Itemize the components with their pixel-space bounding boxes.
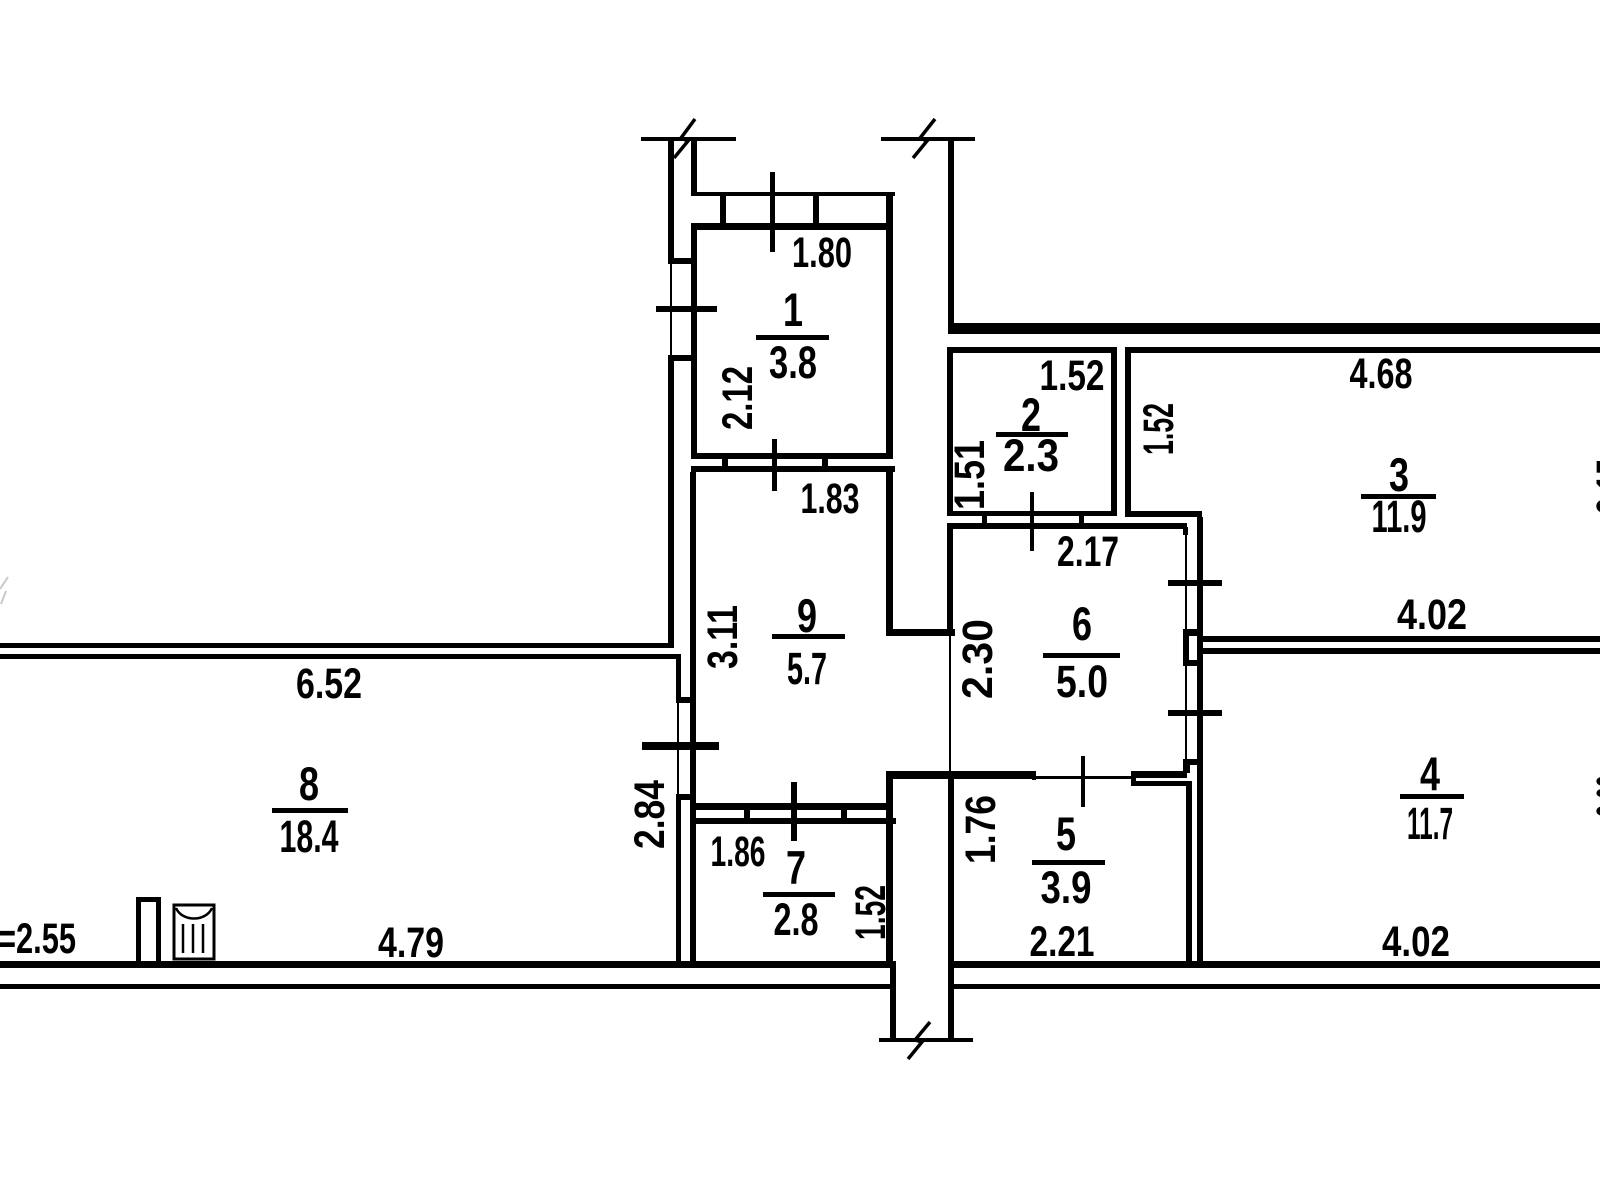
- wall: corridor right leg: [948, 961, 954, 1038]
- room 3 label: fraction line: [1361, 494, 1436, 499]
- svg-text:=2.55: =2.55: [0, 915, 76, 963]
- wall: rooms 6-5 divider left segment: [886, 771, 1034, 779]
- wall: bottom exterior left segment: [0, 961, 896, 968]
- svg-text:5: 5: [1056, 807, 1076, 860]
- svg-text:1.51: 1.51: [946, 440, 994, 510]
- dimension tick: rooms 2-6 (x1032): [1030, 492, 1034, 551]
- svg-text:1.83: 1.83: [801, 475, 860, 523]
- wall: top-right break line: [881, 137, 975, 141]
- wall: bottom exterior right segment: [948, 961, 1600, 968]
- wall: block at room 6 top-right: [1183, 527, 1188, 535]
- wall: exterior left vertical upper (x671): [668, 139, 674, 262]
- svg-text:5.7: 5.7: [787, 643, 827, 694]
- svg-text:1.86: 1.86: [711, 828, 766, 876]
- wall: top-left break line: [641, 137, 736, 141]
- svg-text:18.4: 18.4: [280, 811, 339, 862]
- wall: rooms 9-7 right lower: [886, 771, 893, 967]
- wall: room 9 right upper: [886, 466, 893, 636]
- wall: room 6 right inner thin upper: [1185, 535, 1187, 629]
- wall: room 5 top lower line right: [1133, 781, 1191, 786]
- svg-text:1.52: 1.52: [1040, 352, 1105, 400]
- svg-text:1.80: 1.80: [792, 229, 852, 277]
- wall: room 9 top: [691, 466, 895, 472]
- dimension tick: room 6 right lower (y713): [1168, 710, 1222, 716]
- svg-text:2.21: 2.21: [1030, 918, 1095, 966]
- svg-text:8: 8: [299, 757, 319, 810]
- appliance icon: curved flap: [176, 908, 212, 919]
- tick: rooms 9-7 left window bottom: [677, 794, 696, 800]
- room 8 label: fraction line: [272, 808, 348, 813]
- wall: vertical stub above room 1 (x694): [691, 139, 697, 196]
- tick: rooms 6-5 opening left: [1032, 771, 1036, 780]
- wall: rooms 6-5 divider right upper: [1133, 771, 1187, 778]
- svg-text:1.76: 1.76: [957, 795, 1005, 864]
- tick: rooms 9-7 left window top: [677, 697, 696, 703]
- wall: room 8 top lower line: [0, 654, 680, 659]
- svg-text:3.9: 3.9: [1041, 862, 1092, 913]
- svg-text:3.15: 3.15: [1588, 459, 1600, 514]
- tick: rooms 1-9 opening left: [722, 453, 728, 472]
- wall: junction block top (x1193,y632): [1183, 629, 1203, 636]
- wall: room 5 right: [1186, 781, 1192, 967]
- tick: room 1 top opening right: [813, 196, 819, 226]
- room 4 label: fraction line: [1400, 794, 1464, 799]
- wall: top exterior thick (y328): [948, 323, 1600, 334]
- svg-text:4.68: 4.68: [1350, 350, 1413, 398]
- window: rooms 9-7 left outer thin line: [677, 703, 679, 794]
- wall: divider rooms 3-4 upper line: [1202, 636, 1600, 642]
- wall: room 6 right inner thin lower: [1185, 666, 1187, 762]
- room 1 label: fraction line: [756, 335, 829, 340]
- break symbol zigzag bottom: [908, 1022, 930, 1059]
- wall: top main vertical (x951): [948, 139, 954, 334]
- svg-text:2.84: 2.84: [626, 780, 674, 849]
- wall: passage bottom (rooms 9-6): [886, 771, 955, 778]
- tick: room 1 left window bottom: [668, 355, 697, 361]
- wall: room 2 left: [947, 353, 953, 516]
- svg-text:6.52: 6.52: [296, 660, 362, 708]
- wall: wall under room 3 left: [1125, 511, 1202, 517]
- wall: room 1 bottom: [691, 453, 893, 459]
- svg-text:5.0: 5.0: [1056, 656, 1108, 707]
- svg-text:1.52: 1.52: [847, 885, 895, 940]
- dimension tick: room 6 right upper (y583): [1168, 580, 1222, 586]
- wall: small block room 6 bottom-right: [1183, 765, 1190, 773]
- wall: divider rooms 3-4 lower line: [1202, 648, 1600, 654]
- svg-text:2.12: 2.12: [714, 366, 762, 430]
- room 6 label: fraction line: [1043, 653, 1120, 658]
- tick: room 1 left window top: [668, 258, 697, 264]
- wall: rooms 9-7 left outer upper: [676, 654, 681, 703]
- wall: room 2 bottom: [947, 511, 1117, 516]
- appliance icon (water heater) in room 8: outline: [174, 905, 214, 959]
- svg-text:4.02: 4.02: [1382, 918, 1450, 966]
- svg-text:4: 4: [1420, 747, 1440, 800]
- svg-text:3.09: 3.09: [1588, 775, 1600, 817]
- doorjamb: room 8 opening left leg: [136, 897, 141, 967]
- wall: bottom outer line left segment: [0, 984, 896, 989]
- room 7 label: fraction line: [763, 892, 835, 897]
- wall: room 1 top: [691, 223, 893, 230]
- wall: room 1 left: [691, 230, 697, 459]
- wall: L-connector room 6 right at y762: [1183, 759, 1203, 765]
- svg-text:2.3: 2.3: [1003, 430, 1059, 481]
- wall: room 1 right: [886, 192, 893, 459]
- dimension tick: rooms 6-5 (x1083): [1081, 756, 1085, 807]
- wall: thin line above room 1 (y194): [694, 192, 895, 196]
- svg-text:1.52: 1.52: [1135, 403, 1183, 455]
- wall: junction block bottom: [1183, 660, 1203, 666]
- wall: room 3 top thin: [1125, 347, 1600, 353]
- wall: bottom break line: [879, 1038, 973, 1042]
- dimension tick: rooms 1-9 (x774): [772, 439, 777, 491]
- door: rooms 6-5 opening thin line: [1034, 776, 1133, 779]
- svg-text:4.79: 4.79: [378, 919, 444, 967]
- svg-text:4.02: 4.02: [1397, 591, 1467, 639]
- wall: rooms 9-7 left inner: [690, 472, 696, 967]
- wall: room 6 left upper: [947, 529, 953, 636]
- doorjamb: room 8 opening right leg: [156, 902, 161, 967]
- appliance icon: grill lines: [183, 924, 203, 953]
- wall: room 2 top: [947, 347, 1117, 353]
- dimension tick: rooms 9-7 (x794): [791, 782, 797, 841]
- svg-text:6: 6: [1072, 597, 1092, 650]
- svg-text:11.9: 11.9: [1372, 491, 1427, 542]
- break symbol zigzag top-right: [913, 119, 935, 158]
- wall: room 8 top upper line: [0, 643, 674, 648]
- break fragment left edge (faint): [0, 577, 8, 604]
- wall: passage top (rooms 9-6): [886, 629, 955, 636]
- wall: room 3 left: [1125, 353, 1131, 517]
- dimension tick: rooms 9-7 left (y746): [642, 742, 719, 750]
- tick: rooms 9-7 opening right: [841, 805, 847, 824]
- dimension tick: room 1 left (y309): [656, 306, 717, 312]
- wall: room 7 top: [691, 818, 896, 824]
- doorjamb: room 8 opening top: [136, 897, 161, 902]
- tick: room 1 top opening left: [720, 196, 726, 226]
- svg-text:2.8: 2.8: [774, 894, 819, 945]
- wall: room 9 bottom: [691, 803, 893, 810]
- wall: room 6 left thin (opening): [949, 636, 951, 771]
- tick: rooms 2-6 opening right: [1079, 511, 1084, 529]
- svg-text:3.11: 3.11: [699, 605, 747, 669]
- wall: junction block left edge: [1183, 636, 1189, 665]
- window: room 1 left outer thin line: [670, 262, 672, 358]
- tick: rooms 6-5 opening right: [1131, 771, 1136, 786]
- room 2 label: fraction line: [996, 432, 1068, 437]
- dimension tick: room 1 top (x772): [770, 172, 775, 252]
- wall: room 2 right: [1111, 353, 1117, 516]
- room 5 label: fraction line: [1032, 860, 1105, 865]
- wall: rooms 9-7 left outer lower: [676, 794, 681, 966]
- wall: room 5 left / corridor right: [948, 771, 954, 1038]
- svg-text:7: 7: [786, 841, 806, 894]
- svg-text:3.8: 3.8: [769, 337, 817, 388]
- room 9 label: fraction line: [772, 634, 845, 639]
- tick: rooms 2-6 opening left: [982, 511, 987, 529]
- tick: rooms 9-7 opening left: [744, 805, 750, 824]
- svg-text:1: 1: [783, 283, 803, 336]
- svg-text:2.17: 2.17: [1057, 528, 1119, 576]
- break symbol zigzag top-left: [674, 119, 695, 158]
- wall: exterior left vertical lower (x671): [668, 358, 674, 648]
- svg-text:2.30: 2.30: [954, 619, 1002, 699]
- wall: room 6 top: [947, 523, 1187, 529]
- svg-text:11.7: 11.7: [1407, 798, 1453, 849]
- wall: bottom outer line right segment: [948, 984, 1600, 989]
- wall: rooms 3-4 outer vertical (room 4 left): [1197, 517, 1203, 966]
- tick: rooms 1-9 opening right: [822, 453, 828, 472]
- wall: corridor left leg: [890, 961, 896, 1042]
